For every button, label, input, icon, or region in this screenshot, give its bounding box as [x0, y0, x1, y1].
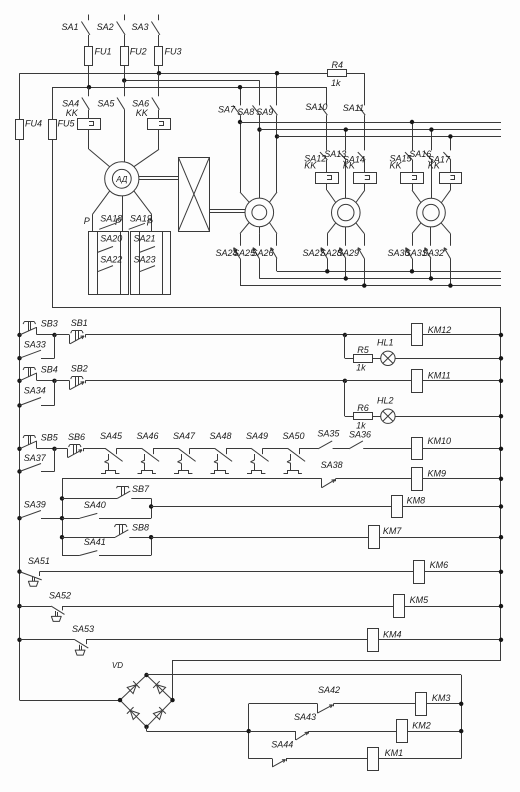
wire: return bus R1 — [277, 271, 501, 273]
lamp HL1 — [372, 337, 501, 365]
diode VD3 — [127, 707, 139, 719]
node P right — [147, 218, 153, 228]
svg-text:KM6: KM6 — [430, 560, 449, 570]
node rail-SA51 — [17, 569, 21, 573]
switch SA32 — [422, 223, 451, 286]
switch SA42 — [249, 685, 416, 713]
svg-text:R4: R4 — [332, 60, 344, 70]
node rail-KM5 — [499, 604, 503, 608]
pushbutton SB3 — [20, 319, 58, 336]
node SB5-SA37 join — [52, 447, 56, 451]
svg-text:KM8: KM8 — [407, 495, 426, 505]
node subbus-KM3 — [459, 702, 463, 706]
switch SA34 — [17, 381, 54, 408]
svg-text:KM5: KM5 — [410, 595, 430, 605]
svg-text:SA22: SA22 — [100, 255, 122, 265]
node rail-SB5 — [17, 447, 21, 451]
resistor R6 — [345, 381, 373, 431]
switch SA11 — [343, 73, 366, 150]
node SA30-R1 — [410, 269, 414, 273]
wire: M1 shaft coupling — [139, 177, 178, 180]
svg-text:KK: KK — [428, 161, 441, 171]
svg-text:FU3: FU3 — [165, 47, 182, 57]
svg-text:SA7: SA7 — [218, 105, 236, 115]
svg-text:SA50: SA50 — [283, 431, 305, 441]
switch SA13 — [324, 130, 346, 199]
node bridge bottom — [144, 725, 148, 729]
switch SA44 — [249, 740, 368, 767]
switch SA17 — [428, 136, 462, 202]
svg-text:SA41: SA41 — [84, 537, 106, 547]
node P mid — [115, 217, 121, 227]
svg-text:SA45: SA45 — [100, 431, 123, 441]
lamp HL2 — [372, 395, 501, 423]
switch SA24 — [216, 223, 250, 286]
wire: phase A to motor M1 — [89, 129, 110, 166]
wire: bus1 — [240, 122, 501, 124]
wire: right rail to bridge AC2 — [173, 660, 502, 700]
svg-text:FU4: FU4 — [25, 118, 42, 128]
wire: KM9 rung — [62, 478, 322, 480]
wire: phase line L3 — [52, 87, 327, 89]
switch SA3 — [131, 15, 159, 47]
fuse FU3 — [155, 47, 182, 74]
svg-text:SB3: SB3 — [41, 319, 58, 329]
switch SA20 — [97, 234, 122, 253]
svg-text:SA11: SA11 — [343, 103, 364, 113]
switch SA18 — [99, 213, 122, 229]
svg-text:KM12: KM12 — [428, 325, 452, 335]
wire: bus3 — [277, 136, 501, 138]
switch SA8 — [237, 80, 260, 198]
svg-text:SA6: SA6 — [132, 98, 149, 108]
switch SA10 — [305, 87, 327, 150]
svg-text:SA44: SA44 — [271, 740, 293, 750]
wire: M1 rotor lead left — [93, 191, 110, 232]
contactor coil KM2 — [397, 720, 462, 743]
svg-text:HL1: HL1 — [377, 337, 394, 347]
wire: phase B to motor M1 — [124, 110, 126, 162]
svg-text:SA32: SA32 — [422, 248, 444, 258]
svg-text:SA3: SA3 — [131, 22, 148, 32]
switch SA53 (pedal) — [20, 624, 95, 655]
switch SA29 — [337, 223, 365, 286]
diode VD1 — [127, 681, 139, 693]
svg-text:KM4: KM4 — [383, 629, 402, 639]
svg-text:KM3: KM3 — [432, 693, 451, 703]
svg-text:SB5: SB5 — [41, 432, 59, 442]
node SA28-R2 — [344, 276, 348, 280]
motor M3 — [332, 198, 361, 227]
svg-text:SA52: SA52 — [49, 591, 71, 601]
svg-text:SA23: SA23 — [134, 255, 156, 265]
svg-text:АД: АД — [115, 175, 127, 184]
wire: bus2 — [260, 129, 502, 131]
svg-text:VD: VD — [112, 661, 123, 670]
switch SA14 — [343, 152, 377, 202]
node SB8-SA41 out — [149, 535, 153, 539]
node rail-SB3 — [17, 333, 21, 337]
wire: bridge minus to sub left bus — [147, 727, 249, 732]
switch SA40 — [62, 500, 151, 519]
fuse FU2 — [121, 47, 147, 81]
node SA9-bus3 — [275, 134, 279, 138]
converter box — [178, 157, 209, 231]
svg-text:SA4: SA4 — [62, 98, 79, 108]
svg-text:SA37: SA37 — [24, 453, 47, 463]
wire: rail to bridge AC1 — [20, 700, 121, 702]
resistor box (rheostat) left — [89, 231, 129, 294]
contactor coil KM1 — [368, 748, 462, 771]
contactor coil KM12 — [345, 324, 501, 346]
node SB3-SA33 join — [52, 333, 56, 337]
wire: phase line L1 — [20, 73, 365, 75]
pushbutton SB8 — [62, 523, 152, 556]
switch SA39 — [17, 499, 62, 520]
svg-text:SA35: SA35 — [317, 429, 340, 439]
svg-text:SA46: SA46 — [137, 431, 159, 441]
fuse FU1 — [85, 47, 112, 88]
svg-text:1k: 1k — [356, 363, 366, 373]
svg-text:KK: KK — [66, 108, 79, 118]
switch SA19 — [129, 213, 152, 229]
switch SA15 — [390, 122, 424, 203]
switch SA28 — [320, 227, 346, 279]
switch SA52 (pedal) — [20, 591, 72, 622]
svg-text:R5: R5 — [357, 345, 369, 355]
fuse FU5 — [49, 87, 76, 308]
switch SA26 — [252, 223, 278, 272]
wire: converter to M2 coupling — [210, 210, 246, 213]
svg-text:KK: KK — [304, 161, 317, 171]
svg-text:SA36: SA36 — [349, 430, 371, 440]
node SA32-R3 — [448, 283, 452, 287]
svg-text:SB1: SB1 — [71, 318, 88, 328]
switch SA48 — [210, 431, 252, 474]
switch SA16 — [409, 130, 432, 199]
svg-text:P: P — [84, 216, 90, 226]
svg-text:SA2: SA2 — [97, 22, 114, 32]
node SA15-bus1 — [410, 120, 414, 124]
node: FU3-L1 junction — [157, 71, 161, 75]
svg-text:KK: KK — [136, 108, 149, 118]
switch SA50 — [283, 431, 319, 474]
switch SA31 — [405, 227, 431, 279]
svg-text:FU2: FU2 — [130, 47, 147, 57]
svg-text:R6: R6 — [357, 403, 369, 413]
switch SA43 — [249, 712, 396, 740]
svg-text:SA10: SA10 — [305, 102, 327, 112]
switch SA47 — [173, 431, 215, 474]
svg-text:SB6: SB6 — [68, 432, 85, 442]
switch SA37 — [17, 449, 54, 474]
node SA17-bus3 — [448, 134, 452, 138]
switch SA12 — [304, 152, 338, 202]
switch SA2 — [97, 15, 125, 47]
svg-text:SA20: SA20 — [100, 234, 122, 244]
resistor R4 — [328, 60, 347, 88]
node rail-SA52 — [17, 604, 21, 608]
pushbutton SB1 — [55, 318, 345, 344]
contactor coil KM6 — [39, 560, 501, 583]
resistor box (rheostat) right — [131, 231, 171, 294]
svg-text:KK: KK — [343, 161, 356, 171]
svg-text:SA5: SA5 — [97, 98, 115, 108]
svg-text:SA1: SA1 — [61, 22, 78, 32]
node SA7-bus1 — [238, 120, 242, 124]
node col-SB7 — [60, 496, 64, 500]
switch SA1 — [61, 15, 89, 47]
node: FU1-L3 junction — [87, 85, 91, 89]
svg-text:HL2: HL2 — [377, 395, 394, 405]
motor M2 — [245, 198, 274, 227]
contactor coil KM11 — [345, 370, 501, 393]
contactor coil KM8 — [151, 495, 501, 517]
svg-text:SA21: SA21 — [134, 234, 156, 244]
node rail-SB4 — [17, 379, 21, 383]
pushbutton SB5 — [20, 432, 59, 449]
node rung2 branch — [343, 379, 347, 383]
switch SA27 — [303, 223, 336, 272]
switch SA9 — [256, 73, 277, 202]
contactor coil KM7 — [151, 526, 501, 549]
svg-text:FU5: FU5 — [58, 118, 76, 128]
svg-text:SA26: SA26 — [252, 248, 274, 258]
svg-text:SB7: SB7 — [132, 484, 150, 494]
motor M4 — [417, 198, 446, 227]
node rail-KM10 — [499, 447, 503, 451]
node SA29-R3 — [362, 283, 366, 287]
svg-text:SA39: SA39 — [24, 499, 46, 509]
pushbutton SB2 — [55, 364, 345, 390]
node rail-KM9 — [499, 477, 503, 481]
svg-text:SA9: SA9 — [256, 107, 273, 117]
svg-text:SA53: SA53 — [72, 624, 94, 634]
node SA8-bus2 — [257, 127, 261, 131]
wire: return bus R2 — [259, 278, 501, 280]
switch SA5 — [97, 80, 124, 109]
switch SA49 — [246, 431, 288, 474]
node P left — [84, 216, 90, 226]
contactor coil KM10 — [412, 436, 502, 460]
node rail-SA53 — [17, 638, 21, 642]
switch SA45 — [100, 431, 142, 474]
node rail-KM7 — [499, 535, 503, 539]
wire: return bus R3 — [240, 285, 501, 287]
node SA31-R2 — [429, 276, 433, 280]
switch SA7 — [218, 87, 249, 202]
svg-text:KM11: KM11 — [428, 371, 451, 381]
node SA9-L1 — [275, 71, 279, 75]
node rail-KM4 — [499, 638, 503, 642]
svg-text:SA48: SA48 — [210, 431, 232, 441]
node subbus-KM2 — [459, 729, 463, 733]
node SB4-SA34 join — [52, 379, 56, 383]
node SA16-bus2 — [429, 127, 433, 131]
switch SA41 — [62, 537, 151, 555]
switch SA36 — [349, 430, 412, 449]
node col-SB8 — [60, 535, 64, 539]
switch SA25 — [233, 227, 260, 279]
svg-text:SA34: SA34 — [24, 385, 46, 395]
svg-text:SB2: SB2 — [71, 364, 88, 374]
node bridge left — [118, 698, 122, 702]
wire: phase C to motor M1 — [134, 129, 159, 166]
svg-text:SA18: SA18 — [100, 213, 122, 223]
diode VD4 — [153, 707, 165, 719]
contactor coil KM4 — [86, 629, 501, 652]
switch SA21 — [134, 234, 156, 253]
svg-text:KM9: KM9 — [428, 468, 447, 478]
contactor coil KM5 — [62, 595, 501, 618]
wire: phase line L2 — [124, 80, 259, 82]
switch SA46 — [137, 431, 179, 474]
node SA7-L3 — [238, 85, 242, 89]
svg-text:KM2: KM2 — [412, 720, 431, 730]
svg-text:KM10: KM10 — [428, 436, 452, 446]
wire: M1 rotor lead right — [134, 191, 152, 232]
contactor coil KM3 — [416, 693, 462, 716]
rectifier bridge VD — [112, 661, 173, 727]
contactor coil KM9 — [412, 468, 502, 491]
fuse FU4 — [16, 73, 43, 700]
switch SA35 — [317, 429, 349, 449]
node col-SA39 — [60, 516, 64, 520]
node sub left feed — [247, 729, 251, 733]
node SB7-SA40 out — [149, 504, 153, 508]
node rail-HL1 — [499, 356, 503, 360]
svg-text:KM7: KM7 — [383, 526, 403, 536]
svg-text:KM1: KM1 — [385, 748, 404, 758]
wire: sub left bus — [248, 704, 250, 759]
svg-text:FU1: FU1 — [95, 47, 112, 57]
pushbutton SB4 — [20, 364, 58, 381]
svg-text:SA29: SA29 — [337, 248, 359, 258]
svg-text:SA51: SA51 — [28, 556, 50, 566]
switch SA33 — [17, 335, 54, 360]
node: FU2-L2 junction — [122, 78, 126, 82]
node rail-KM11 — [499, 379, 503, 383]
svg-text:SA49: SA49 — [246, 431, 268, 441]
svg-text:1k: 1k — [331, 78, 341, 88]
svg-text:KK: KK — [390, 161, 403, 171]
svg-text:SB8: SB8 — [132, 523, 149, 533]
svg-text:SA19: SA19 — [130, 213, 152, 223]
switch SA22 — [97, 255, 122, 272]
motor AD (M1) — [105, 162, 139, 196]
svg-text:SA43: SA43 — [294, 712, 316, 722]
switch SA51 (pedal) — [20, 556, 50, 587]
switch SA38 — [321, 460, 412, 488]
node rail-KM12 — [499, 333, 503, 337]
svg-text:SA33: SA33 — [24, 340, 46, 350]
wire: feeder column — [62, 479, 64, 556]
node SA27-R1 — [325, 269, 329, 273]
wire: control supply to right rail — [52, 308, 501, 661]
wire: bridge plus to sub right bus — [147, 675, 462, 759]
svg-text:SA47: SA47 — [173, 431, 196, 441]
svg-text:SA38: SA38 — [321, 460, 343, 470]
node rail-KM8 — [499, 504, 503, 508]
resistor R5 — [345, 335, 373, 373]
node bridge top — [144, 673, 148, 677]
switch SA6 — [132, 73, 170, 129]
svg-text:SB4: SB4 — [41, 364, 58, 374]
svg-text:SA42: SA42 — [318, 685, 340, 695]
node rung1 branch — [343, 333, 347, 337]
node rail-HL2 — [499, 414, 503, 418]
pushbutton SB6 — [55, 432, 106, 458]
node rail-KM6 — [499, 570, 503, 574]
diode VD2 — [153, 681, 165, 693]
node SA13-bus2 — [344, 127, 348, 131]
switch SA23 — [134, 255, 156, 272]
switch SA30 — [388, 223, 422, 272]
svg-text:SA40: SA40 — [84, 500, 106, 510]
pushbutton SB7 — [62, 484, 152, 518]
svg-text:SA8: SA8 — [237, 107, 254, 117]
wire: M1 rotor lead mid — [122, 196, 124, 232]
switch SA4 — [62, 87, 100, 129]
node bridge right — [170, 698, 174, 702]
